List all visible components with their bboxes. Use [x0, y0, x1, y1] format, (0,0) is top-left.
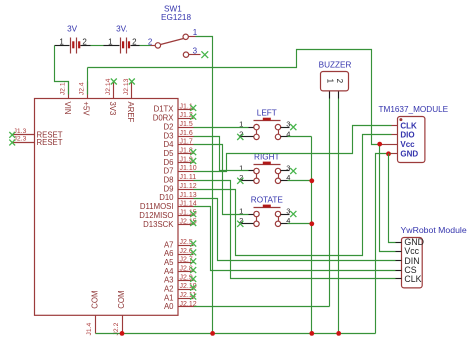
- svg-text:J2.13: J2.13: [123, 78, 130, 95]
- svg-text:J1.12: J1.12: [180, 183, 197, 190]
- svg-text:3V: 3V: [67, 25, 78, 34]
- svg-text:J1.2: J1.2: [180, 112, 193, 119]
- svg-text:3: 3: [286, 163, 290, 172]
- svg-text:3V3: 3V3: [108, 102, 117, 116]
- svg-text:J2.14: J2.14: [105, 78, 112, 95]
- svg-text:1: 1: [326, 79, 335, 84]
- svg-text:J2.1: J2.1: [60, 82, 67, 95]
- svg-text:J1.3: J1.3: [14, 128, 27, 135]
- svg-text:J1.5: J1.5: [180, 121, 193, 128]
- svg-text:VIN: VIN: [63, 102, 72, 115]
- svg-text:2: 2: [148, 37, 153, 46]
- svg-text:1: 1: [193, 28, 198, 37]
- svg-text:D1TX: D1TX: [154, 105, 175, 114]
- svg-text:3V.: 3V.: [116, 25, 128, 34]
- svg-text:J2.4: J2.4: [79, 82, 86, 95]
- svg-text:D3: D3: [164, 131, 174, 140]
- svg-text:+5V: +5V: [82, 102, 91, 117]
- svg-text:D7: D7: [164, 167, 174, 176]
- svg-text:Vcc: Vcc: [404, 246, 419, 256]
- svg-text:A2: A2: [164, 285, 174, 294]
- svg-text:J2.7: J2.7: [180, 257, 193, 264]
- svg-text:LEFT: LEFT: [257, 109, 277, 118]
- svg-text:A4: A4: [164, 267, 174, 276]
- svg-text:J2.8: J2.8: [180, 266, 193, 273]
- svg-text:D0RX: D0RX: [153, 114, 175, 123]
- svg-text:D6: D6: [164, 158, 174, 167]
- svg-text:D11MOSI: D11MOSI: [140, 202, 174, 211]
- svg-text:COM: COM: [90, 290, 99, 308]
- svg-text:D9: D9: [164, 184, 174, 193]
- svg-text:J1.13: J1.13: [180, 192, 197, 199]
- svg-text:Vcc: Vcc: [400, 140, 415, 149]
- svg-text:A1: A1: [164, 293, 174, 302]
- svg-text:A5: A5: [164, 258, 174, 267]
- svg-text:D10: D10: [159, 193, 174, 202]
- svg-text:EG1218: EG1218: [161, 13, 191, 22]
- svg-text:J1.7: J1.7: [180, 139, 193, 146]
- svg-text:TM1637_MODULE: TM1637_MODULE: [379, 105, 449, 114]
- svg-text:J2.6: J2.6: [180, 248, 193, 255]
- svg-text:2: 2: [239, 173, 243, 182]
- svg-text:CLK: CLK: [400, 122, 417, 131]
- svg-text:A3: A3: [164, 276, 174, 285]
- svg-text:RESET: RESET: [37, 138, 63, 147]
- svg-text:J2.9: J2.9: [180, 274, 193, 281]
- svg-text:A0: A0: [164, 302, 174, 311]
- svg-text:D12MISO: D12MISO: [139, 211, 173, 220]
- svg-text:J1.4: J1.4: [86, 322, 93, 335]
- svg-text:J1.9: J1.9: [180, 156, 193, 163]
- svg-text:2: 2: [239, 129, 243, 138]
- svg-text:2: 2: [335, 79, 344, 84]
- svg-text:GND: GND: [400, 150, 418, 159]
- svg-text:D8: D8: [164, 176, 174, 185]
- svg-text:A7: A7: [164, 240, 174, 249]
- svg-text:3: 3: [286, 120, 290, 129]
- svg-text:CLK: CLK: [404, 274, 421, 284]
- svg-text:3: 3: [193, 47, 198, 56]
- svg-text:J2.3: J2.3: [14, 136, 27, 143]
- svg-text:D2: D2: [164, 122, 174, 131]
- svg-text:BUZZER: BUZZER: [319, 61, 352, 70]
- svg-text:DIO: DIO: [400, 131, 414, 140]
- svg-text:AREF: AREF: [126, 102, 135, 123]
- svg-text:A6: A6: [164, 249, 174, 258]
- svg-text:ROTATE: ROTATE: [251, 196, 284, 205]
- svg-text:COM: COM: [117, 290, 126, 308]
- svg-text:J2.5: J2.5: [180, 239, 193, 246]
- svg-text:2: 2: [239, 216, 243, 225]
- svg-text:D4: D4: [164, 140, 175, 149]
- svg-text:J1.8: J1.8: [180, 148, 193, 155]
- svg-text:YwRobot Module: YwRobot Module: [401, 225, 467, 235]
- svg-text:J1.1: J1.1: [180, 103, 193, 110]
- svg-text:3: 3: [286, 206, 290, 215]
- svg-text:J1.6: J1.6: [180, 130, 193, 137]
- svg-text:D13SCK: D13SCK: [143, 220, 174, 229]
- svg-text:D5: D5: [164, 149, 175, 158]
